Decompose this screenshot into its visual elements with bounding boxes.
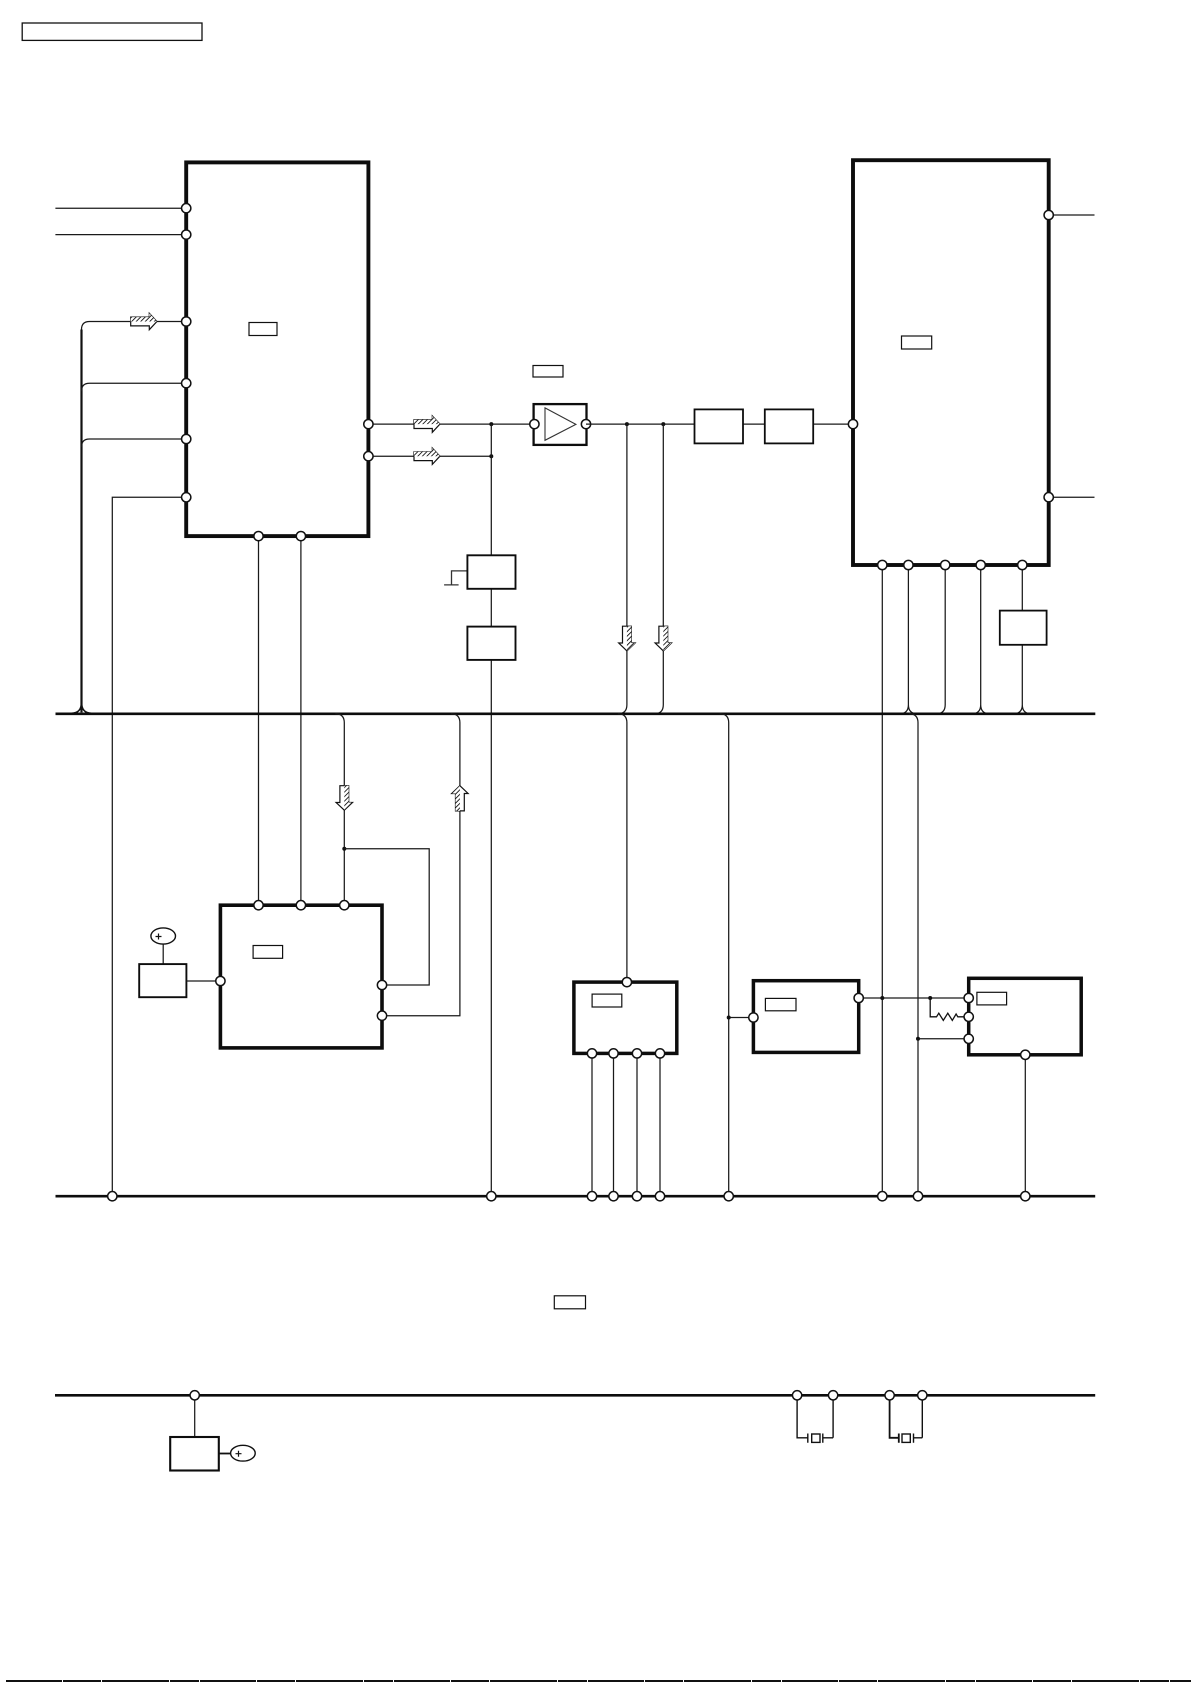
pin circles U3	[848, 210, 1053, 569]
label U7	[977, 992, 1007, 1005]
pin circles U7	[964, 993, 1030, 1059]
wire bus B3 to B8	[194, 1395, 196, 1437]
pin circles U4	[216, 901, 387, 1021]
wire BT1 to B7	[162, 944, 164, 964]
node J2	[489, 454, 493, 458]
wire from bus B1 down to bus B2 through U5 top	[618, 714, 627, 982]
node J8	[928, 996, 932, 1000]
node circles on bus B2	[108, 1192, 1030, 1201]
wire from bus B1 down to U4 pin c with node J5	[335, 714, 344, 905]
block U7	[969, 978, 1081, 1055]
wire line x918 branch to U7 pin 3 with node J9	[918, 1038, 969, 1040]
wire feeder branch to U1 pin 5	[82, 439, 187, 447]
crystal X2	[890, 1400, 923, 1443]
wire input 2 to U1	[55, 234, 186, 236]
wires U5 bottom pins to bus B2	[592, 1053, 660, 1196]
title box	[22, 23, 202, 40]
wire loop J5 to U4 right pin 1	[344, 849, 429, 985]
arrow hatched right A2	[414, 416, 440, 432]
wire from bus B1 down to bus B2 at x728	[720, 714, 729, 1196]
node J1	[489, 422, 493, 426]
node J4	[661, 422, 665, 426]
pin circles U6	[749, 993, 864, 1022]
arrow hatched down A7	[655, 626, 671, 651]
box B2	[695, 409, 744, 443]
pin circles U5	[587, 977, 664, 1058]
wire U3 right out 2	[1049, 496, 1095, 498]
label L8	[554, 1296, 585, 1309]
box SB2	[467, 627, 515, 660]
wire U3 bottom pin 4 into bus B1	[972, 565, 990, 714]
wire U3 bottom pin 5 through B6 into bus B1	[1013, 565, 1031, 714]
battery oval BT1	[151, 928, 176, 944]
box SB1	[467, 555, 515, 589]
block U3	[853, 160, 1049, 565]
label U5	[592, 994, 622, 1007]
wire U7 bottom pin to bus B2	[1024, 1055, 1026, 1196]
label U3	[902, 336, 932, 349]
wire feeder flare into bus	[72, 702, 92, 713]
wire from bus B1 down to bus B2 at x918	[909, 714, 918, 1196]
wire U3 bottom pin 3 into bus B1	[936, 565, 945, 714]
wire U4 right pin 2 up into bus B1	[382, 714, 460, 1016]
label U4	[253, 946, 283, 959]
bus B2	[56, 1195, 1096, 1198]
wire feeder branch to U1 pin 4	[82, 383, 187, 391]
box B6	[1000, 611, 1047, 645]
battery oval BT2	[231, 1445, 256, 1461]
arrow hatched right A3	[414, 448, 440, 464]
wire B8 to BT2	[219, 1453, 231, 1455]
arrow hatched up A5	[452, 786, 468, 811]
node J7	[880, 996, 884, 1000]
block U1	[186, 162, 368, 536]
wire U1 bottom pin to U4 pin b	[300, 536, 302, 905]
node J3	[625, 422, 629, 426]
box B7	[139, 964, 186, 997]
wire thick feeder line	[80, 330, 82, 713]
bus B3	[55, 1394, 1095, 1397]
wire U3 bottom pin 2 into bus B1	[899, 565, 917, 714]
ground stub at SB1	[444, 571, 467, 585]
wire feeder top corner to U1 pin 3	[82, 322, 187, 330]
label U6	[765, 998, 796, 1010]
bus B1	[56, 712, 1096, 715]
wire U1 bottom pin to U4 pin a	[258, 536, 260, 905]
page fold line	[6, 1680, 1191, 1682]
wire U1 out lower	[368, 455, 491, 457]
wire U2 output to U3	[586, 423, 853, 425]
crystal X1	[797, 1400, 833, 1443]
wire node J4 down into bus B1	[654, 424, 663, 714]
box B3	[765, 409, 813, 443]
wire U1 out upper to amp U2	[368, 423, 533, 425]
op-amp U2	[534, 404, 587, 445]
label U2	[533, 366, 563, 378]
wire U3 bottom pin 1 down across buses	[881, 565, 883, 1196]
block U5	[574, 982, 677, 1053]
block U6	[753, 981, 858, 1053]
arrow hatched right A1	[131, 313, 157, 329]
wire U6 left pin to line x728	[729, 1017, 754, 1019]
wire U3 right out 1	[1049, 214, 1095, 216]
wire node J3 down into bus B1	[618, 424, 627, 714]
box B8	[170, 1437, 219, 1471]
pin circles U2	[530, 419, 591, 428]
resistor R1	[930, 998, 969, 1020]
wire input 1 to U1	[55, 207, 186, 209]
node J5	[342, 847, 346, 851]
arrow hatched down A6	[619, 626, 635, 651]
wire node J1 down through SB1 SB2 to bus B2	[490, 424, 492, 1196]
node circles on bus B3	[190, 1391, 927, 1400]
node J6	[727, 1016, 731, 1020]
label U1	[249, 323, 277, 336]
wire U1 pin 6 down to bus B2	[112, 497, 186, 1196]
wire B7 to U4 left pin	[186, 980, 220, 982]
node J9	[916, 1037, 920, 1041]
wire U6 right pin to U7 pin 1	[859, 997, 969, 999]
block U4	[220, 905, 382, 1048]
pin circles U1	[182, 204, 373, 541]
arrow hatched down A4	[336, 786, 352, 811]
